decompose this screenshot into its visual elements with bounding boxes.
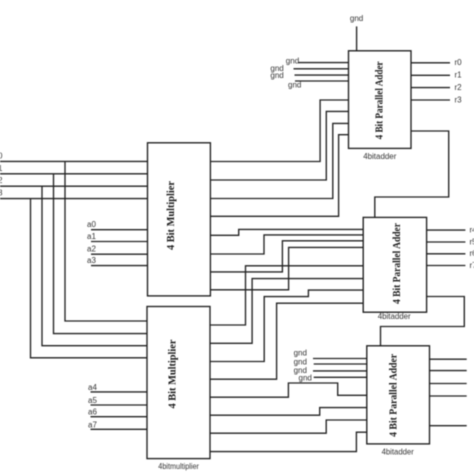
svg-text:gnd: gnd — [270, 71, 283, 80]
svg-text:r3: r3 — [455, 95, 463, 104]
svg-text:b2: b2 — [0, 176, 3, 185]
svg-text:gnd: gnd — [294, 348, 307, 357]
svg-text:b1: b1 — [0, 164, 3, 173]
svg-text:a0: a0 — [87, 220, 96, 229]
svg-text:r7: r7 — [470, 261, 474, 270]
svg-text:a2: a2 — [87, 245, 96, 254]
svg-text:gnd: gnd — [286, 57, 299, 66]
svg-text:b3: b3 — [0, 189, 3, 198]
svg-text:4bitadder: 4bitadder — [363, 152, 397, 161]
svg-text:4bitmultiplier: 4bitmultiplier — [158, 462, 199, 471]
svg-text:a4: a4 — [88, 383, 97, 392]
svg-text:a1: a1 — [87, 232, 96, 241]
svg-text:a5: a5 — [88, 396, 97, 405]
svg-text:r4: r4 — [470, 226, 474, 235]
svg-text:4 Bit Parallel Adder: 4 Bit Parallel Adder — [388, 354, 399, 437]
svg-text:a7: a7 — [88, 420, 97, 429]
svg-text:a6: a6 — [88, 408, 97, 417]
svg-text:gnd: gnd — [294, 357, 307, 366]
svg-text:4bitadder: 4bitadder — [378, 312, 411, 321]
svg-text:gnd: gnd — [299, 374, 312, 383]
svg-text:4bitadder: 4bitadder — [382, 447, 415, 456]
svg-text:4 Bit Parallel Adder: 4 Bit Parallel Adder — [375, 61, 386, 139]
svg-text:r0: r0 — [455, 58, 463, 67]
svg-text:4 Bit Parallel Adder: 4 Bit Parallel Adder — [392, 223, 403, 304]
svg-text:r5: r5 — [470, 237, 474, 246]
svg-text:4 Bit Multiplier: 4 Bit Multiplier — [168, 339, 179, 408]
svg-text:r6: r6 — [470, 249, 474, 258]
svg-text:b0: b0 — [0, 151, 3, 160]
svg-text:a3: a3 — [87, 256, 96, 265]
svg-text:r1: r1 — [455, 71, 463, 80]
svg-text:4 Bit Multiplier: 4 Bit Multiplier — [166, 181, 177, 250]
svg-text:gnd: gnd — [288, 81, 301, 90]
svg-text:r2: r2 — [455, 83, 463, 92]
svg-text:gnd: gnd — [350, 14, 363, 23]
